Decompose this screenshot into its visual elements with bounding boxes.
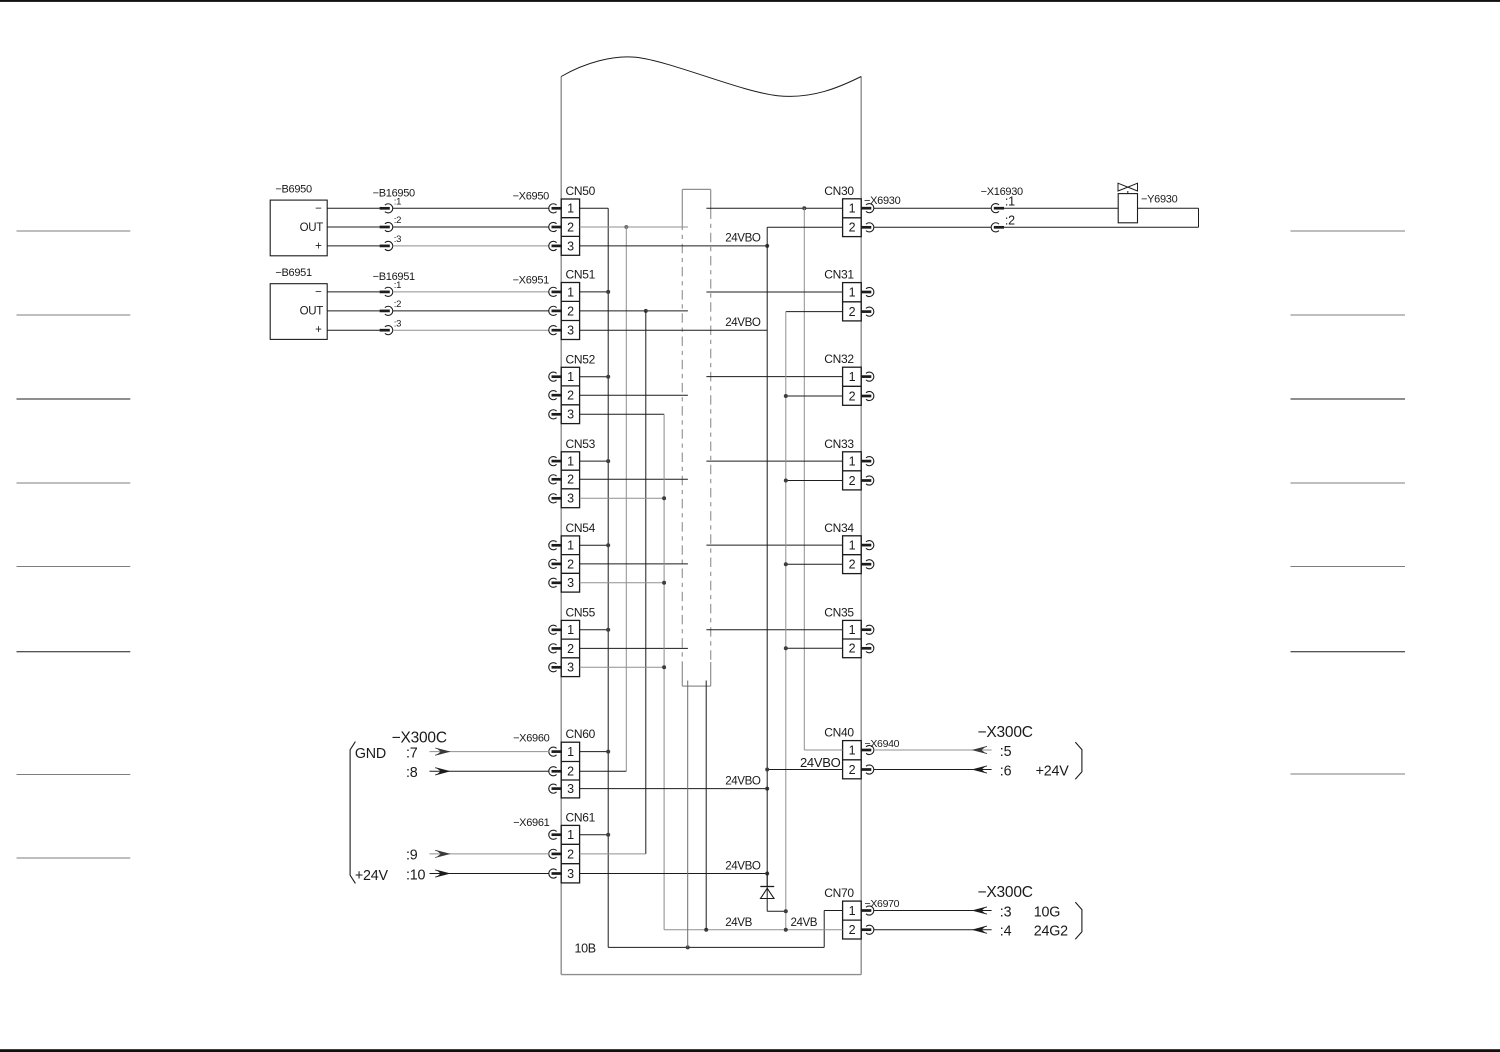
svg-text:3: 3 bbox=[567, 239, 574, 253]
connector CN61 socket bbox=[549, 849, 557, 858]
svg-text:OUT: OUT bbox=[300, 222, 324, 234]
board outline torn top edge (wave) bbox=[561, 57, 861, 97]
svg-text:2: 2 bbox=[849, 474, 856, 488]
connector CN60 socket bbox=[549, 767, 557, 776]
wire CN35-1 from cable bbox=[706, 629, 842, 631]
svg-text::1: :1 bbox=[1005, 194, 1015, 208]
connector CN70 pin 1 socket bbox=[861, 909, 872, 912]
connector CN53 pin 2 socket bbox=[549, 475, 557, 484]
left margin rule 8 bbox=[17, 857, 131, 859]
wire CN40-2 24VBO bbox=[767, 769, 842, 771]
left margin rule 3 bbox=[17, 398, 131, 400]
wire 10B horizontal bbox=[608, 946, 824, 948]
node CN51-2 junction bbox=[644, 309, 648, 313]
connector block CN30 bbox=[824, 184, 861, 237]
wire CN53-1 to bus bbox=[580, 460, 609, 462]
node CN55-1 junction bbox=[606, 628, 610, 632]
svg-text:−X6930: −X6930 bbox=[864, 195, 901, 207]
connector CN33 pin 1 socket bbox=[861, 460, 872, 463]
board outline left edge bbox=[560, 77, 562, 975]
wire CN55-1 to bus bbox=[580, 629, 609, 631]
node CN54-1 junction bbox=[606, 543, 610, 547]
svg-text::8: :8 bbox=[406, 765, 418, 781]
wire CN33-1 from cable bbox=[706, 460, 842, 462]
svg-text:+24V: +24V bbox=[355, 868, 389, 884]
sensor B6950 bbox=[270, 200, 327, 256]
svg-text:+: + bbox=[315, 324, 322, 336]
connector block CN35 bbox=[824, 605, 861, 657]
node CN53-1 junction bbox=[606, 459, 610, 463]
connector CN40 pin 2 socket bbox=[861, 768, 872, 771]
wire CN61-1 to bus bbox=[580, 834, 609, 836]
wire CN54-2 into cable bbox=[580, 563, 688, 565]
svg-text:24VBO: 24VBO bbox=[725, 316, 761, 329]
svg-text:2: 2 bbox=[849, 558, 856, 572]
svg-text::9: :9 bbox=[406, 848, 418, 864]
wire 24VB rail bbox=[664, 929, 843, 931]
connector X6951 pin 2 bbox=[549, 306, 557, 315]
left margin rule 6 bbox=[17, 651, 131, 653]
svg-text:1: 1 bbox=[849, 539, 856, 553]
wire CN40-2 to X300C:6 bbox=[874, 769, 992, 771]
svg-text:−X16930: −X16930 bbox=[981, 186, 1023, 198]
node CN40-2 junction bbox=[765, 768, 769, 772]
connector block CN40 bbox=[824, 726, 861, 779]
wire CN61-3 24VBO bbox=[580, 873, 768, 875]
svg-text::2: :2 bbox=[394, 299, 401, 310]
connector CN55 pin 3 socket bbox=[549, 663, 557, 672]
wire CN70-1 to X300C:3 bbox=[874, 910, 992, 912]
connector B16951 pin :2 bbox=[380, 310, 390, 313]
wire CN32-2 to gray bus bbox=[786, 395, 843, 397]
wire B6951 - to B16951:1 bbox=[327, 291, 379, 293]
cable shield top cap bbox=[682, 188, 710, 190]
cable shield left side bbox=[681, 189, 683, 220]
svg-text:CN52: CN52 bbox=[566, 352, 596, 366]
top border bar bbox=[0, 0, 1500, 2]
wire CN34-2 to gray bus bbox=[786, 563, 843, 565]
connector CN35 pin 2 socket bbox=[861, 647, 872, 650]
node CN34-2 junction bbox=[784, 562, 788, 566]
connector CN61 socket bbox=[549, 830, 557, 839]
svg-text:CN60: CN60 bbox=[566, 727, 596, 741]
bus 24VB gray vertical bbox=[785, 312, 787, 930]
node 24VB gray bus junction bbox=[784, 928, 788, 932]
diode D1 triangle bbox=[761, 888, 775, 898]
node 24VBO junction CN60 bbox=[765, 787, 769, 791]
node 24VBO junction row1 bbox=[765, 244, 769, 248]
connector X6950 pin 1 bbox=[549, 204, 557, 213]
svg-text:CN51: CN51 bbox=[566, 268, 596, 282]
left margin rule 4 bbox=[17, 482, 131, 484]
wire CN40-1 to X300C:5 bbox=[874, 749, 992, 751]
wire B16951:2 to X6951 bbox=[393, 310, 549, 312]
bus CN30-1 to CN40-1 bbox=[803, 208, 805, 750]
wire CN31-2 to 24VB gray bus bbox=[786, 311, 843, 313]
wire CN33-2 to gray bus bbox=[786, 480, 843, 482]
connector B16950 pin :1 bbox=[380, 207, 390, 210]
connector B16951 pin :1 bbox=[380, 291, 390, 294]
diode D1 cathode bar bbox=[760, 886, 774, 888]
wire CN40-1 from bus bbox=[804, 749, 842, 751]
svg-text:CN61: CN61 bbox=[566, 810, 596, 824]
right margin rule 7 bbox=[1291, 773, 1406, 775]
svg-text:−B6950: −B6950 bbox=[275, 184, 312, 196]
svg-text:−X300C: −X300C bbox=[392, 729, 447, 746]
connector CN55 pin 2 socket bbox=[549, 644, 557, 653]
svg-text:−X6940: −X6940 bbox=[865, 738, 900, 750]
svg-text:CN53: CN53 bbox=[566, 437, 596, 451]
bracket X300C left bbox=[350, 742, 355, 884]
connector X16930 pin :1 bbox=[991, 204, 999, 213]
wire CN30-2 to X16930:2 bbox=[874, 226, 991, 228]
bracket X300C right lower bbox=[1075, 902, 1082, 939]
node diode junction bbox=[784, 909, 788, 913]
svg-text::2: :2 bbox=[1005, 214, 1015, 228]
svg-text:−: − bbox=[315, 203, 322, 215]
connector block CN53 bbox=[561, 437, 595, 508]
right margin rule 1 bbox=[1291, 230, 1406, 232]
connector CN53 pin 3 socket bbox=[549, 494, 557, 503]
wire CN51-1 to bus bbox=[580, 291, 609, 293]
svg-text:CN50: CN50 bbox=[566, 184, 596, 198]
svg-text:−X6970: −X6970 bbox=[865, 898, 900, 910]
svg-text::1: :1 bbox=[394, 280, 401, 291]
wire 10B riser bbox=[823, 911, 825, 948]
connector CN52 pin 1 socket bbox=[549, 372, 557, 381]
connector CN33 pin 2 socket bbox=[861, 479, 872, 482]
wire shield drain to 24VB bbox=[705, 681, 707, 930]
wire CN50-2 into cable bbox=[580, 226, 688, 228]
svg-text::6: :6 bbox=[1000, 763, 1012, 779]
wire CN30-1 from cable bbox=[706, 207, 842, 209]
connector CN35 pin 1 socket bbox=[861, 628, 872, 631]
svg-text:1: 1 bbox=[849, 202, 856, 216]
left margin rule 2 bbox=[17, 314, 131, 316]
node CN54-3 junction bbox=[662, 581, 666, 585]
connector block CN60 bbox=[561, 727, 595, 798]
svg-text:24VBO: 24VBO bbox=[725, 232, 761, 245]
bracket X300C right upper bbox=[1075, 742, 1082, 779]
node 10B shield junction bbox=[686, 945, 690, 949]
board outline right edge bbox=[860, 77, 862, 975]
bus CN50-2 to CN60-2 bbox=[625, 227, 627, 771]
connector block CN34 bbox=[824, 521, 861, 574]
wire 10B to CN70-1 bbox=[824, 910, 842, 912]
connector B16950 pin :2 bbox=[380, 226, 390, 229]
svg-text:2: 2 bbox=[567, 389, 574, 403]
svg-text:CN30: CN30 bbox=[824, 184, 854, 198]
cable shield bottom cap bbox=[682, 685, 710, 687]
svg-text:GND: GND bbox=[355, 746, 386, 762]
connector CN60 socket bbox=[549, 784, 557, 793]
svg-text:1: 1 bbox=[567, 370, 574, 384]
svg-text:−X300C: −X300C bbox=[978, 884, 1033, 901]
node 24VBO junction CN61 bbox=[765, 872, 769, 876]
svg-text:24G2: 24G2 bbox=[1034, 924, 1068, 940]
svg-text:1: 1 bbox=[849, 455, 856, 469]
svg-text::3: :3 bbox=[394, 318, 401, 329]
svg-text:10B: 10B bbox=[575, 941, 596, 955]
svg-text:−X6961: −X6961 bbox=[513, 817, 550, 829]
svg-text:2: 2 bbox=[849, 305, 856, 319]
svg-text:3: 3 bbox=[567, 324, 574, 338]
svg-text:3: 3 bbox=[567, 867, 574, 881]
svg-text:24VBO: 24VBO bbox=[800, 755, 841, 770]
right margin rule 3 bbox=[1291, 398, 1406, 400]
svg-text:3: 3 bbox=[567, 661, 574, 675]
svg-text:2: 2 bbox=[567, 642, 574, 656]
connector block CN31 bbox=[824, 268, 861, 321]
connector X6951 pin 1 bbox=[549, 287, 557, 296]
svg-text:CN31: CN31 bbox=[824, 268, 854, 282]
valve Y6930 seat symbol bbox=[1118, 183, 1128, 191]
svg-text:−X6950: −X6950 bbox=[513, 191, 550, 203]
svg-text:1: 1 bbox=[849, 285, 856, 299]
svg-text:CN32: CN32 bbox=[824, 352, 854, 366]
svg-text:24VB: 24VB bbox=[791, 916, 818, 929]
wire CN70-2 to X300C:4 bbox=[874, 929, 992, 931]
board outline bottom edge bbox=[561, 974, 861, 976]
svg-text:1: 1 bbox=[567, 623, 574, 637]
wire B6950 - to B16950:1 bbox=[327, 207, 379, 209]
svg-text::1: :1 bbox=[394, 197, 401, 208]
svg-text:CN34: CN34 bbox=[824, 521, 854, 535]
svg-text:1: 1 bbox=[567, 539, 574, 553]
wire CN50-1 to bus bbox=[580, 207, 609, 209]
node 24VB shield junction bbox=[704, 928, 708, 932]
connector CN31 pin 2 socket bbox=[861, 310, 872, 313]
svg-text::10: :10 bbox=[406, 867, 426, 883]
wire CN60-2 to bus bbox=[580, 770, 627, 772]
node CN30-1 junction bbox=[802, 206, 806, 210]
svg-text:2: 2 bbox=[567, 473, 574, 487]
wire B6950 + to B16950:3 bbox=[327, 245, 379, 247]
svg-text::3: :3 bbox=[394, 234, 401, 245]
svg-text:+: + bbox=[315, 241, 322, 253]
connector CN30 pin 1 socket bbox=[861, 207, 872, 210]
node CN53-3 junction bbox=[662, 496, 666, 500]
wire B16951:3 to X6951 bbox=[393, 329, 549, 331]
left margin rule 5 bbox=[17, 566, 131, 568]
connector CN54 pin 1 socket bbox=[549, 541, 557, 550]
node CN35-2 junction bbox=[784, 646, 788, 650]
connector CN70 pin 2 socket bbox=[861, 928, 872, 931]
connector block CN51 bbox=[561, 268, 595, 340]
wire CN61-2 to bus bbox=[580, 853, 646, 855]
svg-text:−: − bbox=[315, 286, 322, 298]
connector B16951 pin :3 bbox=[380, 329, 390, 332]
connector X16930 pin :2 bbox=[991, 223, 999, 232]
bus CN51-2 to CN61-2 bbox=[645, 311, 647, 854]
wire CN53-3 to 24VB bus bbox=[580, 497, 665, 499]
svg-text:+24V: +24V bbox=[1036, 763, 1070, 779]
svg-text::2: :2 bbox=[394, 215, 401, 226]
wire X300C:9 to X6961 bbox=[430, 853, 550, 855]
connector CN34 pin 1 socket bbox=[861, 544, 872, 547]
svg-text:3: 3 bbox=[567, 408, 574, 422]
svg-text::3: :3 bbox=[1000, 904, 1012, 920]
wire CN55-3 to 24VB bus bbox=[580, 666, 665, 668]
svg-text:CN33: CN33 bbox=[824, 437, 854, 451]
connector block CN33 bbox=[824, 437, 861, 490]
svg-text:2: 2 bbox=[849, 642, 856, 656]
wire CN31-1 from cable bbox=[706, 291, 842, 293]
connector CN52 pin 2 socket bbox=[549, 391, 557, 400]
right margin rule 2 bbox=[1291, 314, 1406, 316]
svg-text:2: 2 bbox=[849, 221, 856, 235]
svg-text::5: :5 bbox=[1000, 744, 1012, 760]
connector block CN55 bbox=[561, 605, 595, 676]
wire B16951:1 to X6951 bbox=[393, 291, 549, 293]
node CN50-2 junction bbox=[624, 225, 628, 229]
svg-text:2: 2 bbox=[567, 765, 574, 779]
wire B6951 OUT to B16951:2 bbox=[327, 310, 379, 312]
connector CN54 pin 2 socket bbox=[549, 559, 557, 568]
svg-text:−X6960: −X6960 bbox=[513, 733, 550, 745]
svg-text:CN70: CN70 bbox=[824, 886, 854, 900]
wire X16930:2 return bbox=[1004, 226, 1199, 228]
svg-text:2: 2 bbox=[567, 847, 574, 861]
svg-text:1: 1 bbox=[567, 455, 574, 469]
svg-text:CN55: CN55 bbox=[566, 605, 596, 619]
wire CN60-3 24VBO bbox=[580, 788, 768, 790]
wire B16950:1 to X6950 bbox=[393, 207, 549, 209]
connector block CN70 bbox=[824, 886, 861, 939]
svg-text:10G: 10G bbox=[1034, 904, 1061, 920]
valve Y6930 coil bbox=[1118, 194, 1137, 223]
connector CN61 socket bbox=[549, 869, 557, 878]
wire X300C:8 to X6960 bbox=[430, 770, 550, 772]
right margin rule 5 bbox=[1291, 566, 1406, 568]
node CN61-1 junction bbox=[606, 833, 610, 837]
wire CN30-2 to 24VBO bus bbox=[767, 226, 842, 228]
connector X6950 pin 2 bbox=[549, 222, 557, 231]
svg-text:24VBO: 24VBO bbox=[725, 859, 761, 872]
connector CN31 pin 1 socket bbox=[861, 291, 872, 294]
connector CN52 pin 3 socket bbox=[549, 410, 557, 419]
svg-text:24VB: 24VB bbox=[725, 916, 752, 929]
svg-text:1: 1 bbox=[567, 745, 574, 759]
wire B6951 + to B16951:3 bbox=[327, 329, 379, 331]
connector B16950 pin :3 bbox=[380, 245, 390, 248]
connector block CN50 bbox=[561, 184, 595, 255]
svg-text:−X300C: −X300C bbox=[978, 724, 1033, 741]
svg-text:24VBO: 24VBO bbox=[725, 774, 761, 787]
wire CN52-1 to bus bbox=[580, 376, 609, 378]
wire CN53-2 into cable bbox=[580, 478, 688, 480]
svg-text:CN35: CN35 bbox=[824, 605, 854, 619]
svg-text:2: 2 bbox=[849, 389, 856, 403]
svg-text:2: 2 bbox=[567, 557, 574, 571]
connector X6950 pin 3 bbox=[549, 241, 557, 250]
connector CN60 socket bbox=[549, 747, 557, 756]
wire X16930:1 to valve bbox=[1004, 207, 1118, 209]
left margin rule 7 bbox=[17, 774, 131, 776]
connector block CN54 bbox=[561, 521, 595, 592]
right margin rule 6 bbox=[1291, 651, 1406, 653]
svg-text:3: 3 bbox=[567, 782, 574, 796]
svg-text::4: :4 bbox=[1000, 924, 1012, 940]
node CN51-1 junction bbox=[606, 290, 610, 294]
wire X300C:7 to X6960 bbox=[430, 751, 550, 753]
wire B16950:2 to X6950 bbox=[393, 226, 549, 228]
svg-text:CN40: CN40 bbox=[824, 726, 854, 740]
wire CN60-1 to bus bbox=[580, 751, 609, 753]
wire CN34-1 from cable bbox=[706, 544, 842, 546]
wire CN35-2 to gray bus bbox=[786, 647, 843, 649]
svg-text:3: 3 bbox=[567, 576, 574, 590]
wire CN32-1 from cable bbox=[706, 376, 842, 378]
svg-text:1: 1 bbox=[849, 623, 856, 637]
svg-text:1: 1 bbox=[567, 828, 574, 842]
node CN52-1 junction bbox=[606, 375, 610, 379]
connector block CN32 bbox=[824, 352, 861, 405]
svg-text:−X6951: −X6951 bbox=[513, 274, 550, 286]
connector CN53 pin 1 socket bbox=[549, 457, 557, 466]
svg-text:2: 2 bbox=[567, 220, 574, 234]
svg-text:2: 2 bbox=[849, 923, 856, 937]
wire diode to 24VB gray bus bbox=[767, 910, 786, 912]
svg-text:3: 3 bbox=[567, 492, 574, 506]
bus 10B vertical bbox=[607, 208, 609, 947]
cable shield right side bbox=[710, 189, 712, 209]
connector CN32 pin 2 socket bbox=[861, 395, 872, 398]
connector CN34 pin 2 socket bbox=[861, 563, 872, 566]
wire shield drain to 10B bbox=[687, 681, 689, 948]
connector block CN52 bbox=[561, 352, 595, 423]
wire CN50-3 24VBO bbox=[580, 245, 768, 247]
svg-text:1: 1 bbox=[849, 904, 856, 918]
svg-text:1: 1 bbox=[849, 743, 856, 757]
connector block CN61 bbox=[561, 810, 595, 883]
wire CN55-2 into cable bbox=[580, 647, 688, 649]
wire valve return bbox=[1138, 207, 1199, 209]
wire B6950 OUT to B16950:2 bbox=[327, 226, 379, 228]
svg-text:OUT: OUT bbox=[300, 306, 324, 318]
svg-text::7: :7 bbox=[406, 745, 418, 761]
svg-text:1: 1 bbox=[567, 285, 574, 299]
svg-text:2: 2 bbox=[849, 763, 856, 777]
node CN55-3 junction bbox=[662, 665, 666, 669]
svg-text:CN54: CN54 bbox=[566, 521, 596, 535]
svg-text:−B6951: −B6951 bbox=[275, 267, 312, 279]
node CN32-2 junction bbox=[784, 394, 788, 398]
wire CN54-3 to 24VB bus bbox=[580, 582, 665, 584]
diode D1 anode wire bbox=[766, 874, 768, 912]
wire X300C:10 to X6961 bbox=[430, 873, 550, 875]
sensor B6951 bbox=[270, 284, 327, 340]
connector CN32 pin 1 socket bbox=[861, 375, 872, 378]
wire B16950:3 to X6950 bbox=[393, 245, 549, 247]
svg-text:−Y6930: −Y6930 bbox=[1141, 194, 1178, 206]
wire CN30-1 to X16930:1 bbox=[874, 207, 991, 209]
connector CN30 pin 2 socket bbox=[861, 226, 872, 229]
wire CN51-3 24VBO bbox=[580, 329, 768, 331]
node CN60-1 junction bbox=[606, 750, 610, 754]
connector X6951 pin 3 bbox=[549, 326, 557, 335]
bus 24VB vertical bbox=[663, 414, 665, 930]
bottom border bar bbox=[0, 1049, 1500, 1052]
connector CN55 pin 1 socket bbox=[549, 625, 557, 634]
node CN33-2 junction bbox=[784, 479, 788, 483]
wire CN52-2 into cable bbox=[580, 394, 688, 396]
wire CN52-3 to 24VB bus bbox=[580, 413, 665, 415]
right margin rule 4 bbox=[1291, 482, 1406, 484]
bus 24VBO vertical bbox=[766, 227, 768, 886]
wire CN54-1 to bus bbox=[580, 544, 609, 546]
connector CN54 pin 3 socket bbox=[549, 578, 557, 587]
